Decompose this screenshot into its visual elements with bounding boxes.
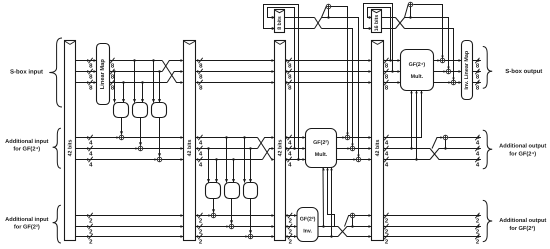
- svg-text:GF(2²): GF(2²): [300, 217, 316, 223]
- svg-text:Inv.: Inv.: [303, 229, 312, 235]
- svg-text:8 bits: 8 bits: [277, 16, 283, 30]
- svg-text:Mult.: Mult.: [315, 152, 328, 158]
- svg-text:S-box output: S-box output: [505, 68, 542, 75]
- svg-text:Mult.: Mult.: [411, 74, 424, 80]
- svg-text:for GF(2⁴): for GF(2⁴): [13, 145, 40, 152]
- svg-text:for GF(2⁴): for GF(2⁴): [509, 151, 536, 158]
- svg-text:for GF(2²): for GF(2²): [14, 224, 40, 231]
- svg-text:S-box input: S-box input: [10, 68, 43, 75]
- svg-text:GF(2²): GF(2²): [313, 140, 329, 146]
- svg-text:Additional input: Additional input: [5, 138, 48, 145]
- svg-text:42 bits: 42 bits: [187, 140, 193, 157]
- svg-text:Additional output: Additional output: [499, 217, 546, 224]
- svg-text:Linear Map: Linear Map: [99, 59, 106, 90]
- svg-text:for GF(2²): for GF(2²): [509, 225, 535, 232]
- svg-text:16 bits: 16 bits: [374, 15, 380, 32]
- svg-text:42 bits: 42 bits: [375, 140, 381, 157]
- svg-text:Inv. Linear Map: Inv. Linear Map: [464, 50, 470, 90]
- svg-text:GF(2⁴): GF(2⁴): [409, 62, 426, 68]
- svg-text:42 bits: 42 bits: [67, 140, 73, 157]
- svg-text:Additional input: Additional input: [5, 216, 48, 223]
- svg-text:42 bits: 42 bits: [277, 140, 283, 157]
- svg-text:Additional output: Additional output: [499, 143, 546, 150]
